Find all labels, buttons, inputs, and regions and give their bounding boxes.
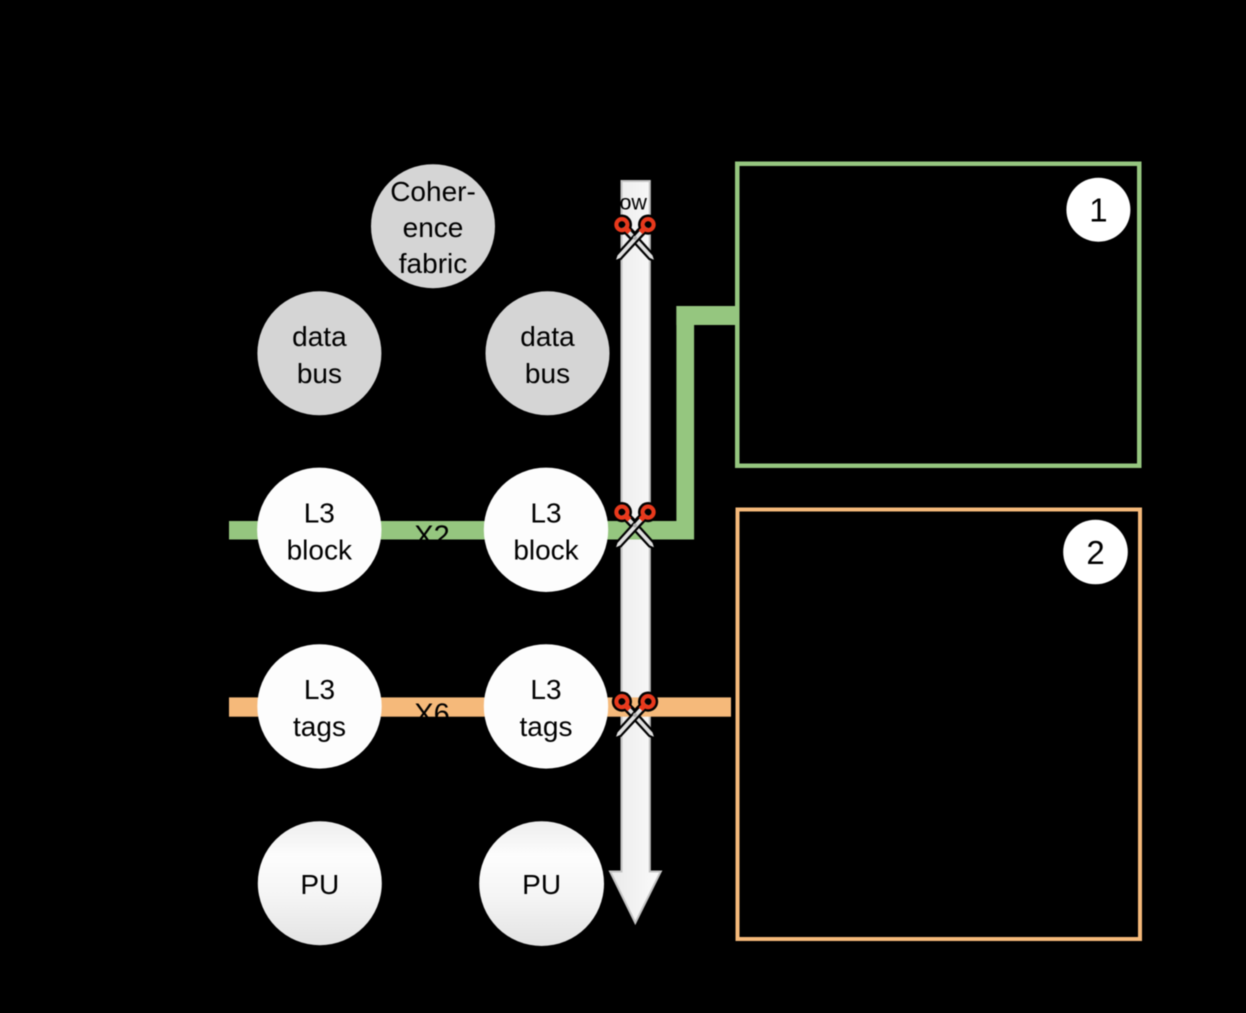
svg-text:bus: bus [297,358,342,389]
svg-text:block: block [287,534,353,565]
svg-text:fabric: fabric [399,248,467,279]
circle: L3 tags left [257,644,381,768]
svg-text:tags: tags [520,711,573,742]
green elbow vertical segment [676,306,694,539]
box 1 (green) [737,164,1139,466]
badge 2 [1063,520,1128,585]
svg-text:2: 2 [1086,534,1104,571]
circle: Coherence fabric [371,164,495,288]
big vertical arrow [610,181,661,923]
svg-text:data: data [292,321,347,352]
svg-text:1: 1 [1089,192,1107,229]
box 2 (orange) [738,510,1141,940]
svg-text:bus: bus [525,358,570,389]
svg-text:L3: L3 [304,497,335,528]
svg-text:overflow: overflow [567,191,648,215]
badge 1 [1066,178,1130,242]
circle: data bus left [257,291,381,415]
svg-text:data: data [520,321,575,352]
circle: data bus right [486,291,610,415]
circle: L3 tags right [484,644,608,768]
circle: PU left [258,821,382,945]
scissors cut 1 (top of arrow) [612,215,658,262]
svg-text:block: block [513,534,579,565]
svg-text:tags: tags [293,711,346,742]
circle: PU right [479,821,604,946]
svg-text:Coher-: Coher- [390,176,476,207]
svg-text:X2: X2 [414,521,449,553]
svg-text:PU: PU [300,869,339,900]
circle: L3 block left [257,468,381,592]
scissors cut 3 (orange bar) [612,692,658,739]
svg-text:ence: ence [403,212,464,243]
orange horizontal bus bar (L3 tags row) [229,697,731,716]
svg-text:L3: L3 [530,497,561,528]
svg-text:PU: PU [522,869,561,900]
green horizontal bus bar (L3 block row) [229,521,694,540]
svg-text:L3: L3 [530,674,561,705]
svg-text:X6: X6 [414,699,449,731]
circle: L3 block right [484,468,608,592]
svg-text:L3: L3 [304,674,335,705]
scissors cut 2 (green bar) [612,502,658,549]
green elbow top horizontal segment into box 1 [676,306,737,325]
